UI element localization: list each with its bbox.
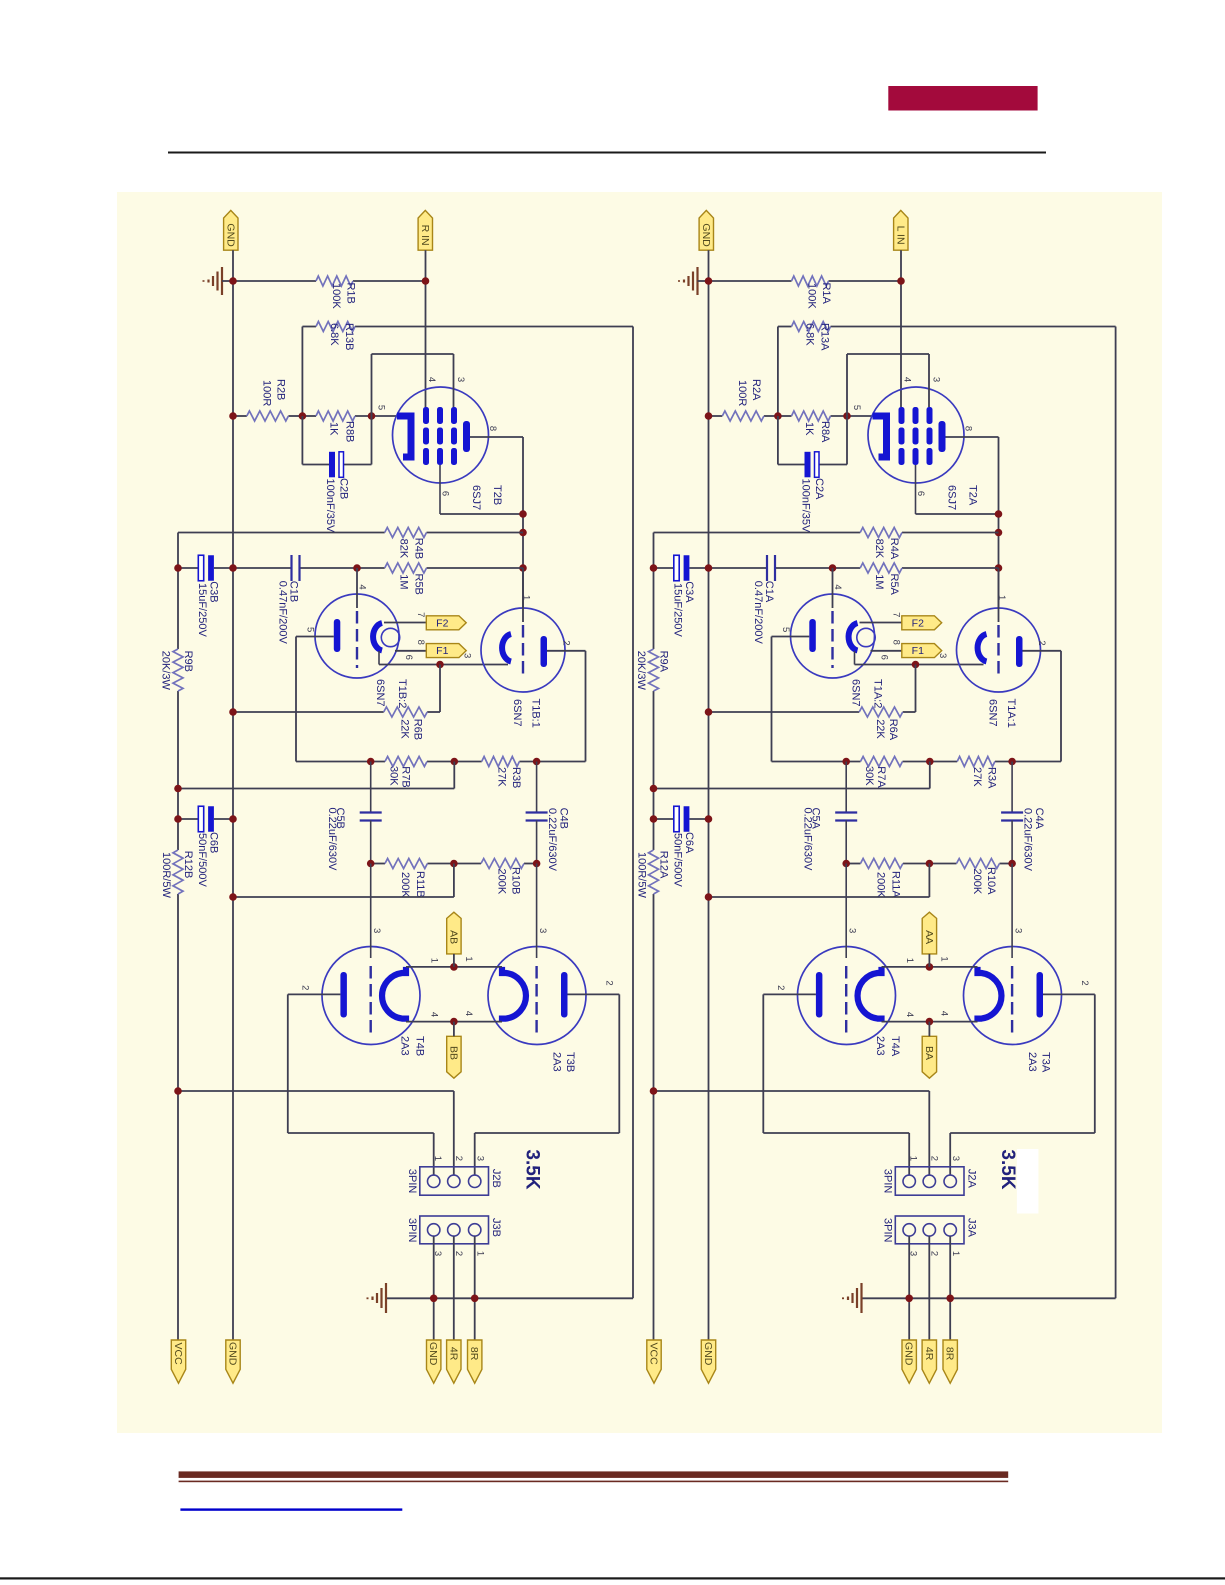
power flag GND top (A)	[699, 210, 713, 250]
wire: feedback vertical x=1115.6	[1115, 327, 1117, 1299]
resistor R8A	[792, 411, 831, 421]
junction: VCC/centre tap	[174, 1087, 182, 1095]
T1B:2 grid wire pin4	[356, 568, 358, 608]
svg-text:6SN7: 6SN7	[374, 679, 386, 707]
svg-text:3PIN: 3PIN	[406, 1218, 418, 1243]
resistor R7B	[385, 757, 427, 767]
svg-text:3: 3	[1013, 928, 1024, 933]
T4B grid wire pin3	[370, 864, 372, 959]
net flag AB	[447, 912, 461, 954]
svg-text:20K/3W: 20K/3W	[635, 651, 647, 691]
junction: R8/pin5	[368, 412, 376, 420]
port flag 8R	[468, 1340, 482, 1383]
wire: grid line y=416	[709, 415, 723, 417]
wire: J3 pin3 to GND flag	[908, 1236, 910, 1340]
port flag L IN (A)	[894, 210, 908, 250]
wire: flag stub	[453, 1022, 455, 1037]
svg-text:GND: GND	[700, 223, 712, 247]
wire: bias return to GND y=897	[928, 864, 930, 898]
svg-text:6SJ7: 6SJ7	[470, 485, 482, 510]
resistor R11B	[385, 859, 427, 869]
junction: C6/GND	[229, 815, 237, 823]
svg-text:T1A:2: T1A:2	[872, 679, 884, 708]
svg-text:AA: AA	[923, 930, 935, 944]
svg-text:2: 2	[775, 985, 786, 990]
T2A plate bar	[939, 421, 946, 452]
resistor R5B	[385, 563, 427, 573]
svg-text:30K: 30K	[863, 766, 875, 786]
svg-text:R3B: R3B	[510, 767, 522, 788]
wire: R13 left drop	[301, 327, 303, 417]
wire: grid bias line y=863.5	[371, 863, 385, 865]
svg-text:4: 4	[938, 1011, 949, 1016]
junction: VCC/B+ feed	[174, 785, 182, 793]
junction: VCC/B+ feed	[650, 785, 658, 793]
footer double rule	[179, 1471, 1009, 1478]
svg-text:4: 4	[904, 1012, 915, 1017]
capacitor C1A	[766, 555, 768, 581]
resistor R5A	[860, 563, 902, 573]
capacitor C1B	[290, 555, 292, 581]
svg-text:100K: 100K	[806, 283, 818, 309]
svg-text:1: 1	[950, 1251, 961, 1256]
wire: R6B right leg	[439, 665, 441, 713]
junction: R11/R10 mid	[926, 860, 934, 868]
flag F1	[426, 644, 466, 658]
svg-text:100R/5W: 100R/5W	[635, 852, 647, 898]
svg-text:2A3: 2A3	[874, 1036, 886, 1056]
wire: input top rail y=281	[233, 280, 316, 282]
junction: bias return/GND	[705, 893, 713, 901]
wire: splitter plate line y=761.5	[296, 761, 385, 763]
junction: VCC/C3	[650, 564, 658, 572]
wire: grid line y=416	[233, 415, 247, 417]
svg-text:L IN: L IN	[894, 226, 906, 245]
junction: B+ mid/plate line	[926, 758, 934, 766]
svg-text:1: 1	[474, 1251, 485, 1256]
resistor R13B	[316, 322, 355, 332]
svg-text:R IN: R IN	[419, 225, 431, 246]
resistor R2B	[247, 411, 289, 421]
junction: filament 1	[450, 963, 458, 971]
svg-text:0.22uF/630V: 0.22uF/630V	[326, 808, 338, 872]
resistor R4A	[860, 528, 902, 538]
tube T1A:1 6SN7 envelope	[957, 608, 1041, 692]
wire: plate node vertical x=523	[522, 514, 524, 608]
svg-text:0.47nF/200V: 0.47nF/200V	[752, 581, 764, 645]
T1A:2 plate bar	[809, 619, 816, 652]
junction: C4/plate line	[533, 758, 541, 766]
T1B:1 plate bar	[541, 636, 548, 667]
T3A grid wire pin3	[1011, 864, 1013, 959]
svg-text:T4B: T4B	[413, 1036, 425, 1056]
svg-text:100nF/35V: 100nF/35V	[800, 479, 812, 533]
tube T1B:1 6SN7 envelope	[481, 608, 565, 692]
svg-text:J3B: J3B	[490, 1218, 502, 1237]
svg-text:8R: 8R	[468, 1347, 480, 1361]
svg-text:2: 2	[560, 640, 571, 645]
port flag 4R	[922, 1340, 936, 1383]
junction: grid T4	[842, 860, 850, 868]
wire: J3 pin2 to 4R flag	[453, 1236, 455, 1340]
svg-text:R2A: R2A	[750, 379, 762, 401]
junction: cathode/R6	[436, 661, 444, 669]
svg-text:R12A: R12A	[658, 851, 670, 879]
junction: L IN/R1	[897, 277, 905, 285]
junction: filament 1	[926, 963, 934, 971]
svg-text:1: 1	[904, 958, 915, 963]
wire: J3 pin2 to 4R flag	[928, 1236, 930, 1340]
svg-text:R4A: R4A	[888, 538, 900, 560]
wire: filament line 4 y=1021.6	[882, 1021, 978, 1023]
junction: 8R tap / feedback	[946, 1295, 954, 1303]
wire: GND rail x=708.5	[708, 250, 710, 1340]
svg-text:1: 1	[938, 956, 949, 961]
resistor R2A	[722, 411, 764, 421]
svg-text:1: 1	[996, 595, 1007, 600]
port flag GND (output)	[427, 1340, 441, 1383]
resistor R12A (vertical)	[649, 850, 659, 894]
svg-text:R13B: R13B	[343, 323, 355, 351]
T2B plate bar	[463, 421, 470, 452]
power flag VCC bottom	[647, 1340, 661, 1383]
connector J3A 3PIN	[895, 1216, 964, 1244]
junction: C5/plate line	[367, 758, 375, 766]
svg-text:15uF/250V: 15uF/250V	[196, 583, 208, 637]
junction: VCC/C6	[650, 815, 658, 823]
capacitor C4A	[1011, 762, 1013, 813]
junction: grid T3	[533, 860, 541, 868]
svg-text:6: 6	[879, 655, 890, 660]
wire: feedback net y=326.5	[778, 326, 792, 328]
svg-text:6SN7: 6SN7	[511, 699, 523, 727]
T1A:2 grid wire pin4	[832, 568, 834, 608]
T1B:2 plate bar	[334, 619, 341, 652]
svg-text:2: 2	[928, 1156, 939, 1161]
svg-text:1: 1	[463, 956, 474, 961]
power flag VCC bottom	[171, 1340, 185, 1383]
white patch next to 3.5K label (channel A)	[1017, 1149, 1039, 1214]
wire: feedback vertical x=633	[632, 327, 634, 1299]
wire: T1B:1 pin2 plate out	[547, 650, 586, 652]
svg-text:1M: 1M	[398, 574, 410, 589]
junction: GND/R1	[229, 277, 237, 285]
junction: grid T4	[367, 860, 375, 868]
wire: flag stub	[928, 954, 930, 967]
wire: J3 pin1 to 8R flag	[474, 1236, 476, 1340]
wire: filament line 1 y=966.9	[406, 966, 502, 968]
capacitor C2B bypass loop	[301, 416, 303, 465]
svg-text:GND: GND	[702, 1342, 714, 1366]
header rule	[168, 152, 1046, 154]
svg-text:J2A: J2A	[965, 1169, 977, 1189]
svg-text:8: 8	[890, 640, 901, 645]
tube T3B 2A3 envelope	[488, 947, 586, 1045]
svg-text:3: 3	[847, 928, 858, 933]
resistor R8B	[316, 411, 355, 421]
svg-text:J2B: J2B	[490, 1169, 502, 1188]
wire: R IN net vertical	[425, 250, 427, 407]
svg-text:22K: 22K	[874, 719, 886, 739]
svg-text:R7B: R7B	[400, 766, 412, 787]
svg-text:7: 7	[890, 612, 901, 617]
junction: C4/plate line	[1008, 758, 1016, 766]
svg-text:R5B: R5B	[413, 574, 425, 595]
svg-text:3: 3	[455, 377, 466, 382]
resistor R13A	[792, 322, 831, 332]
svg-text:6: 6	[403, 655, 414, 660]
svg-text:22K: 22K	[398, 719, 410, 739]
svg-text:VCC: VCC	[648, 1343, 660, 1366]
wire: flag stub	[453, 954, 455, 967]
wire: R13 left drop	[777, 327, 779, 417]
junction: R2/R8	[299, 412, 307, 420]
svg-text:2: 2	[299, 985, 310, 990]
ground symbol (top, B)	[221, 267, 223, 295]
resistor R1B	[316, 276, 353, 286]
header accent block	[888, 86, 1037, 111]
capacitor C5A	[845, 762, 847, 813]
power flag GND bottom	[226, 1340, 240, 1383]
junction: R2/R8	[774, 412, 782, 420]
wire: coupling line y=568	[178, 567, 198, 569]
svg-text:R11A: R11A	[890, 871, 902, 898]
wire: heater pin8 to F1	[871, 650, 902, 652]
wire: splitter plate line y=761.5	[772, 761, 861, 763]
junction: GND tap	[430, 1295, 438, 1303]
svg-text:82K: 82K	[398, 539, 410, 559]
svg-text:F1: F1	[436, 645, 448, 657]
T1A:1 grid wire pin1	[998, 568, 1000, 622]
svg-text:R1B: R1B	[345, 283, 357, 304]
svg-text:6SN7: 6SN7	[850, 679, 862, 707]
capacitor C4B	[536, 762, 538, 813]
svg-text:C3B: C3B	[208, 581, 220, 602]
wire: VCC decoupling y=819	[654, 818, 674, 820]
T1B:2 heater circle	[381, 628, 399, 646]
wire: GND rail x=233	[232, 250, 234, 1340]
T4B plate bar	[340, 972, 347, 1018]
svg-text:F2: F2	[436, 617, 448, 629]
net flag AA	[922, 912, 936, 954]
svg-text:T1B:2: T1B:2	[396, 679, 408, 708]
svg-text:1: 1	[432, 1156, 443, 1161]
connector J2A 3PIN	[895, 1167, 964, 1195]
junction: pin6/plate node	[519, 510, 527, 518]
svg-text:1: 1	[429, 958, 440, 963]
svg-text:R2B: R2B	[275, 379, 287, 400]
T1A:2 heater circle	[857, 628, 875, 646]
net flag BA	[922, 1036, 936, 1078]
svg-text:5: 5	[376, 405, 387, 410]
resistor R3A	[957, 757, 995, 767]
svg-text:BA: BA	[923, 1046, 935, 1060]
wire: OPT primary top y=1133	[288, 1132, 434, 1134]
wire: splitter B+ feed y=788.5	[453, 762, 455, 789]
svg-text:C2A: C2A	[813, 478, 825, 500]
svg-text:R9A: R9A	[658, 651, 670, 673]
wire: earth to GND rail	[222, 280, 233, 282]
wire: heater pin8 to F1	[395, 650, 426, 652]
svg-text:200K: 200K	[496, 869, 508, 895]
svg-text:T3A: T3A	[1039, 1052, 1051, 1073]
tube T4B 2A3 envelope	[322, 947, 420, 1045]
T3B plate bar	[561, 972, 568, 1018]
svg-text:C3A: C3A	[683, 581, 695, 603]
wire: R6B left lead	[233, 711, 384, 713]
svg-text:T4A: T4A	[889, 1036, 901, 1057]
junction: VCC/C6	[174, 815, 182, 823]
junction: R6/GND	[229, 708, 237, 716]
svg-text:1: 1	[520, 595, 531, 600]
svg-text:30K: 30K	[387, 766, 399, 786]
wire: R6A right leg	[915, 665, 917, 713]
T3A filament arc	[978, 967, 1002, 1022]
T2A cathode hook	[873, 416, 887, 457]
svg-text:5: 5	[851, 405, 862, 410]
wire: L IN net vertical	[900, 250, 902, 407]
T1B:1 cathode arc	[502, 634, 511, 662]
wire: VCC rail x=653.5	[653, 533, 655, 650]
ground symbol (top, A)	[696, 267, 698, 295]
svg-text:3.5K: 3.5K	[522, 1149, 543, 1189]
junction: filament 4	[450, 1018, 458, 1026]
svg-text:50nF/500V: 50nF/500V	[672, 833, 684, 887]
T1A:2 cathode arc	[849, 623, 858, 651]
svg-text:3: 3	[931, 377, 942, 382]
svg-text:R7A: R7A	[875, 766, 887, 788]
net flag BB	[447, 1036, 461, 1078]
svg-text:4: 4	[902, 377, 913, 382]
svg-text:20K/3W: 20K/3W	[159, 651, 171, 691]
junction: C1/grid node	[353, 564, 361, 572]
svg-text:0.22uF/630V: 0.22uF/630V	[802, 808, 814, 872]
wire: T2B pin8 plate out	[470, 436, 523, 438]
svg-text:1K: 1K	[328, 422, 340, 436]
svg-text:R10A: R10A	[985, 867, 997, 895]
ground symbol (bottom, A)	[860, 1283, 862, 1313]
junction: C1/grid node	[829, 564, 837, 572]
svg-text:2A3: 2A3	[398, 1036, 410, 1056]
junction: C3/GND	[705, 564, 713, 572]
svg-text:T1B:1: T1B:1	[530, 699, 542, 728]
channel B group	[159, 210, 633, 1383]
wire: T1B:2 pin5 plate out	[296, 636, 334, 638]
svg-text:6SN7: 6SN7	[987, 699, 999, 727]
svg-text:T2B: T2B	[491, 485, 503, 505]
junction: grid T3	[1008, 860, 1016, 868]
wire: bias return to GND y=897	[453, 864, 455, 898]
wire: feedback net y=326.5	[302, 326, 316, 328]
wire: B+ feed y=532.5	[654, 532, 861, 534]
junction: VCC/C3	[174, 564, 182, 572]
svg-text:R6A: R6A	[887, 719, 899, 741]
svg-text:GND: GND	[903, 1342, 915, 1366]
svg-text:0.22uF/630V: 0.22uF/630V	[1022, 808, 1034, 872]
svg-text:GND: GND	[224, 223, 236, 247]
wire: T3A pin2 plate out	[1043, 993, 1095, 995]
wire: secondary common y=1298.3	[862, 1297, 910, 1299]
power flag GND top (B)	[224, 210, 238, 250]
svg-text:R3A: R3A	[986, 767, 998, 789]
svg-text:1: 1	[908, 1156, 919, 1161]
svg-text:3: 3	[937, 653, 948, 658]
wire: T1A:2 pin5 plate out	[772, 636, 810, 638]
svg-text:2: 2	[1036, 640, 1047, 645]
svg-text:C2B: C2B	[338, 478, 350, 499]
wire: R6A left lead	[709, 711, 860, 713]
junction: R11/R10 mid	[450, 860, 458, 868]
T4A filament arc	[858, 967, 882, 1022]
svg-text:C4B: C4B	[558, 808, 570, 829]
wire: heater pin7 to F2	[384, 622, 426, 624]
wire: filament line 4 y=1021.6	[406, 1021, 502, 1023]
junction: R IN/R1	[422, 277, 430, 285]
capacitor C6B (polarised)	[198, 806, 203, 832]
svg-text:6.8K: 6.8K	[328, 323, 340, 346]
svg-text:R10B: R10B	[509, 867, 521, 895]
svg-text:R9B: R9B	[182, 651, 194, 672]
wire: J3 pin1 to 8R flag	[949, 1236, 951, 1340]
tube T2A 6SJ7 envelope	[868, 387, 964, 483]
flag F1	[902, 644, 942, 658]
wire: T4B pin2 plate out	[288, 993, 341, 995]
schematic sheet background	[117, 192, 1162, 1433]
wire: VCC rail x=178	[177, 533, 179, 650]
resistor R4B	[385, 528, 427, 538]
junction: cathode/R6	[912, 661, 920, 669]
junction: R6/GND	[705, 708, 713, 716]
wire: J3 pin3 to GND flag	[433, 1236, 435, 1340]
T3B grid wire pin3	[536, 864, 538, 959]
svg-text:5: 5	[304, 627, 315, 632]
wire: flag stub	[928, 1022, 930, 1037]
junction: R5/plate node	[519, 564, 527, 572]
svg-text:R4B: R4B	[413, 538, 425, 559]
svg-text:3: 3	[462, 653, 473, 658]
junction: R2/GND	[705, 412, 713, 420]
svg-text:C6A: C6A	[683, 832, 695, 854]
svg-text:3.5K: 3.5K	[997, 1149, 1018, 1189]
junction: R2/GND	[229, 412, 237, 420]
page bottom rule	[0, 1577, 1225, 1579]
svg-text:0.22uF/630V: 0.22uF/630V	[546, 808, 558, 872]
svg-text:T1A:1: T1A:1	[1005, 699, 1017, 728]
junction: C6/GND	[705, 815, 713, 823]
T2A grid bars	[899, 407, 905, 424]
svg-text:6.8K: 6.8K	[804, 323, 816, 346]
resistor R6B	[384, 707, 428, 717]
svg-text:F2: F2	[912, 617, 924, 629]
junction: filament 4	[926, 1018, 934, 1026]
junction: C5/plate line	[842, 758, 850, 766]
wire: filament line 1 y=966.9	[882, 966, 978, 968]
wire: T1A:1 pin2 plate out	[1023, 650, 1062, 652]
wire: cathode line y=664.5	[854, 651, 856, 665]
svg-text:4R: 4R	[923, 1347, 935, 1361]
T3B filament arc	[502, 967, 526, 1022]
resistor R6A	[859, 707, 903, 717]
wire: cathode line y=664.5	[378, 651, 380, 665]
wire: secondary common y=1298.3	[386, 1297, 434, 1299]
svg-text:2: 2	[453, 1156, 464, 1161]
capacitor C5B	[370, 762, 372, 813]
junction: VCC/centre tap	[650, 1087, 658, 1095]
svg-text:2: 2	[604, 980, 615, 985]
T1B:1 grid wire pin1	[522, 568, 524, 622]
svg-text:100R: 100R	[261, 380, 273, 406]
T4A grid wire pin3	[845, 864, 847, 959]
